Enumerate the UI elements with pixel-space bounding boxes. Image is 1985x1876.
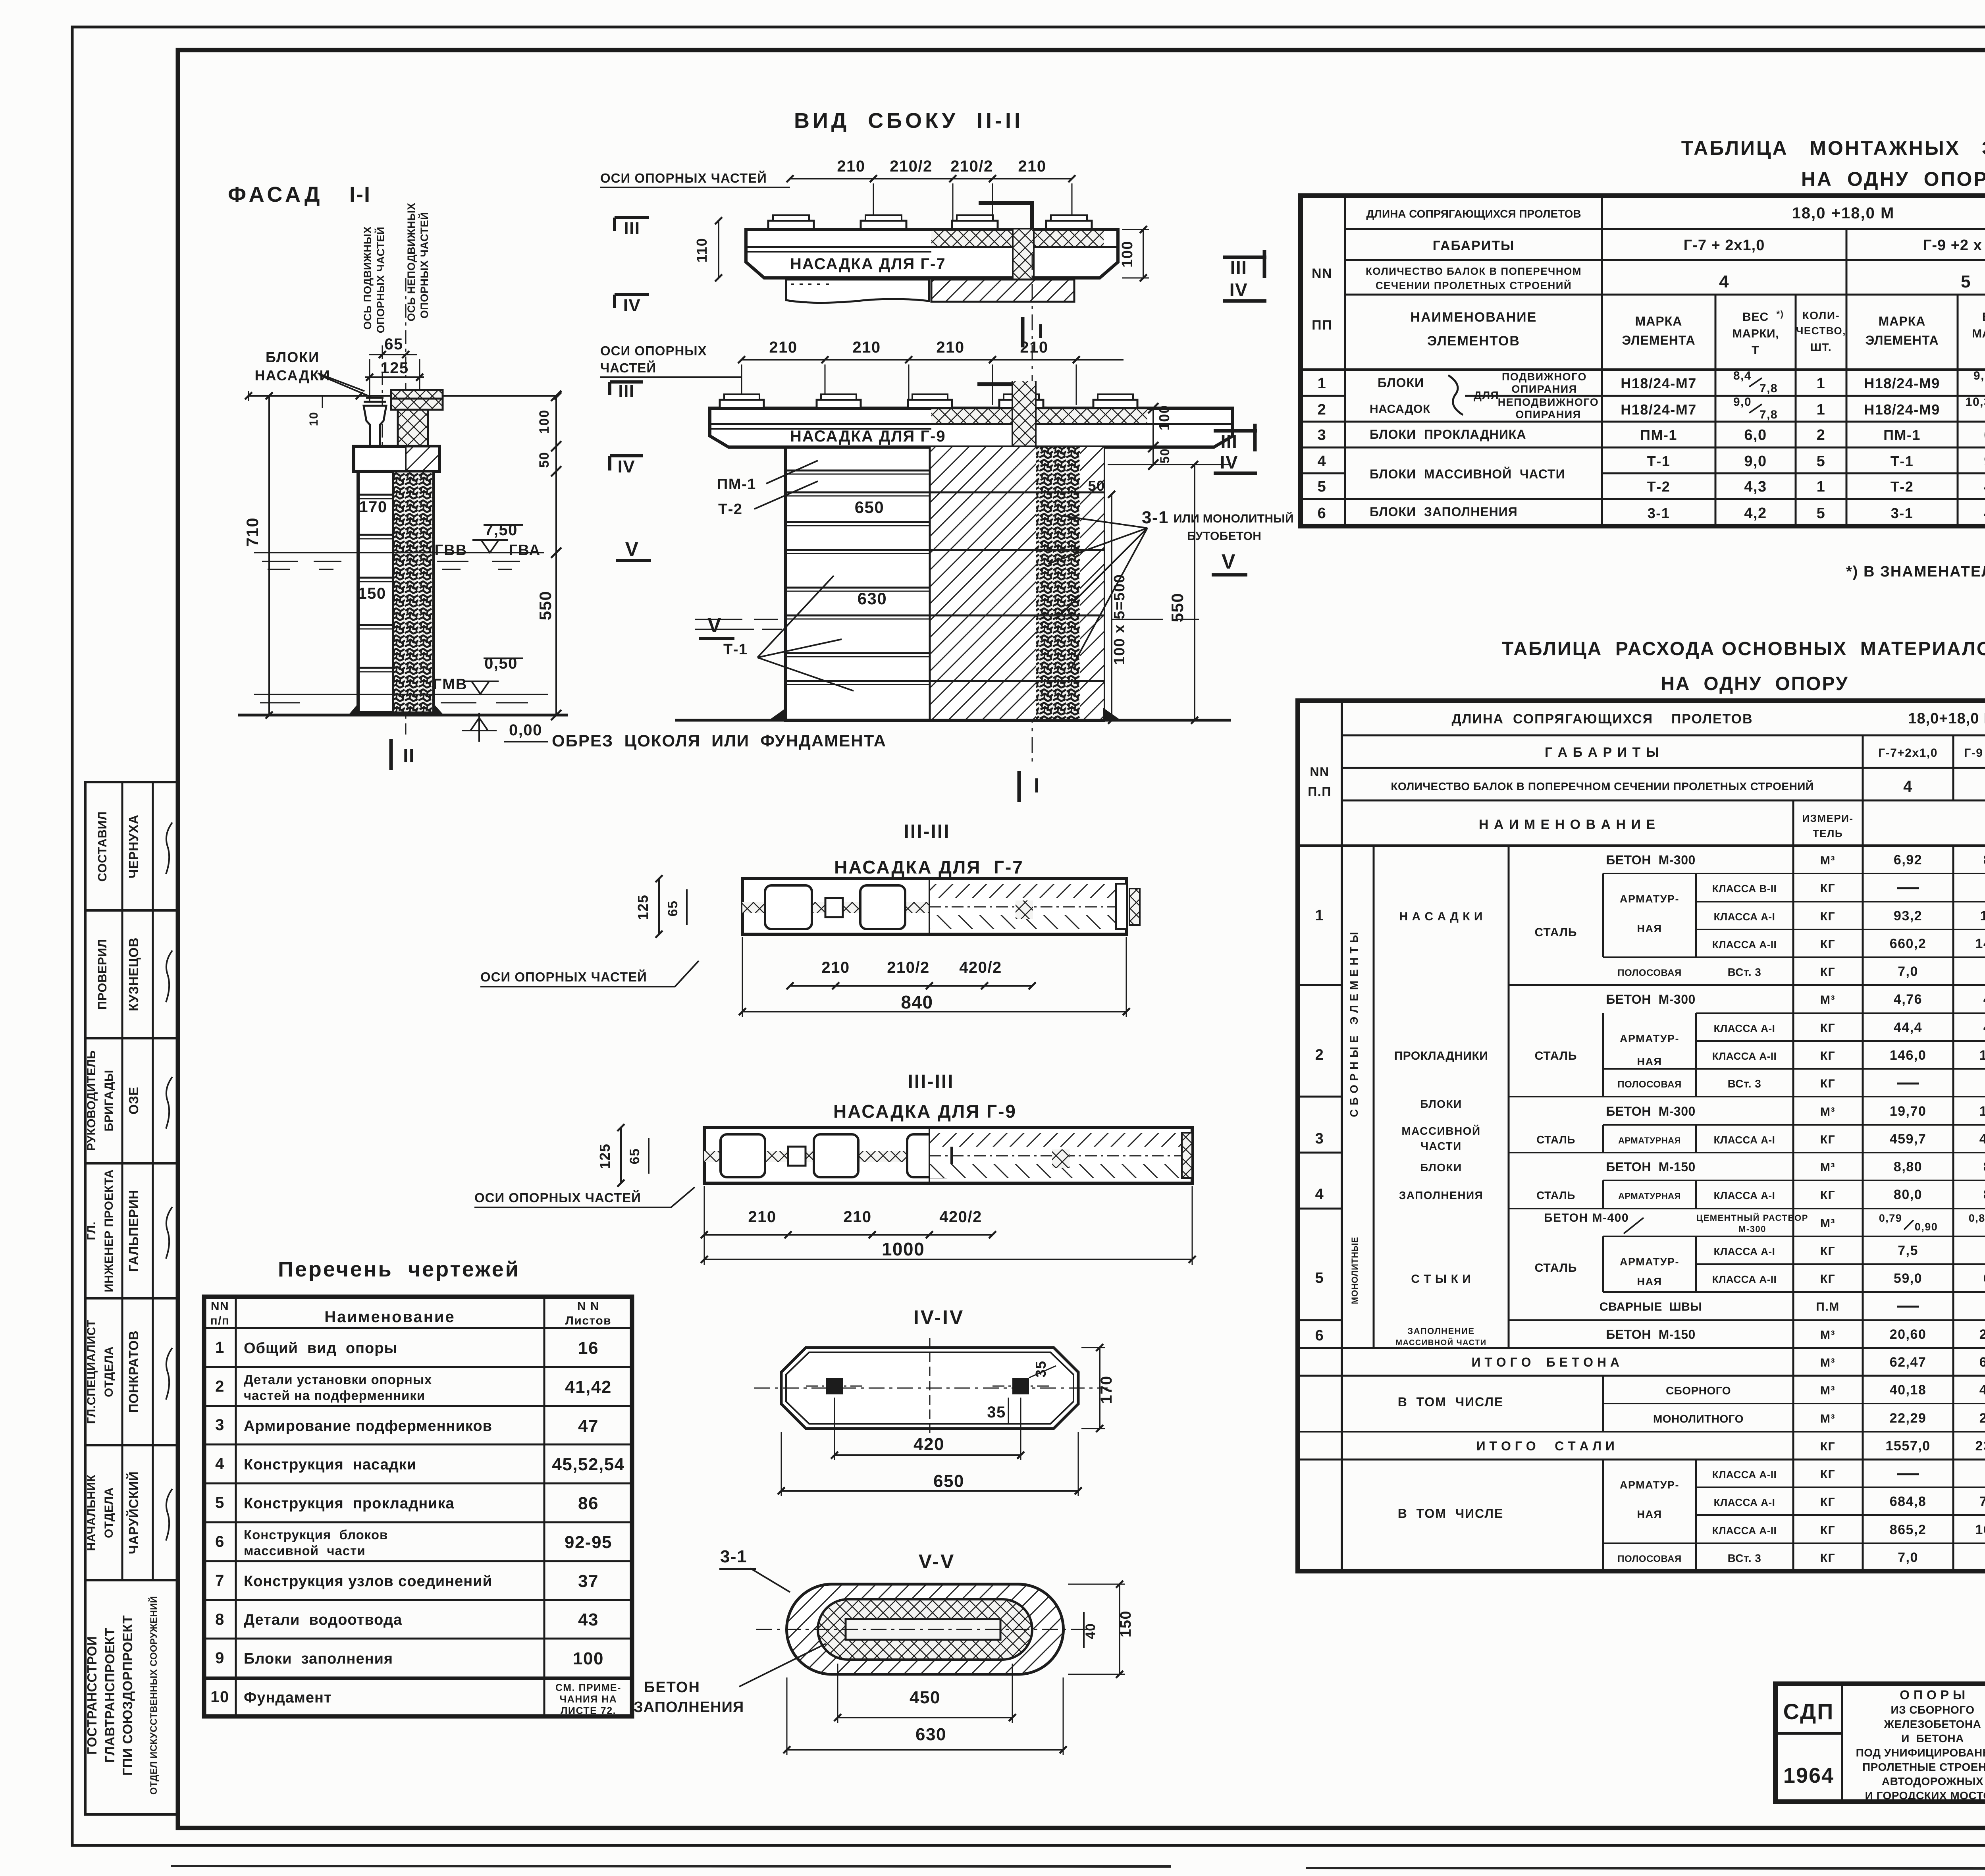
svg-text:АРМАТУР-: АРМАТУР-	[1620, 1479, 1679, 1491]
svg-text:100: 100	[1156, 405, 1172, 431]
facade dim 65	[369, 354, 417, 355]
svg-text:ПМ-1: ПМ-1	[717, 476, 756, 493]
svg-text:ИЗМЕРИ-: ИЗМЕРИ-	[1802, 812, 1853, 824]
svg-text:550: 550	[536, 591, 555, 621]
svg-text:М³: М³	[1820, 1217, 1835, 1230]
svg-text:КЛАССА А-I: КЛАССА А-I	[1714, 1134, 1775, 1146]
svg-text:III: III	[618, 382, 634, 401]
svg-text:459,7: 459,7	[1979, 1132, 1985, 1147]
svg-text:Т-1: Т-1	[1647, 453, 1671, 469]
svg-text:9,5: 9,5	[1973, 369, 1985, 382]
svg-text:18,0+18,0 М: 18,0+18,0 М	[1908, 710, 1985, 727]
svg-text:НАСАДКА ДЛЯ Г-9: НАСАДКА ДЛЯ Г-9	[833, 1101, 1017, 1122]
svg-text:ОБРЕЗ ЦОКОЛЯ ИЛИ ФУНДАМЕНТА: ОБРЕЗ ЦОКОЛЯ ИЛИ ФУНДАМЕНТА	[552, 731, 887, 750]
svg-text:МАССИВНОЙ ЧАСТИ: МАССИВНОЙ ЧАСТИ	[1395, 1338, 1486, 1347]
svg-text:СМ. ПРИМЕ-: СМ. ПРИМЕ-	[555, 1682, 621, 1693]
svg-text:125: 125	[635, 895, 651, 920]
svg-text:7,5: 7,5	[1898, 1243, 1918, 1258]
svg-text:ЦЕМЕНТНЫЙ РАСТВОР: ЦЕМЕНТНЫЙ РАСТВОР	[1696, 1213, 1808, 1223]
III-III G9 right bands	[929, 1133, 1192, 1147]
svg-text:2: 2	[1318, 401, 1327, 418]
svg-text:420/2: 420/2	[939, 1208, 982, 1226]
svg-text:Конструкция блоков: Конструкция блоков	[244, 1527, 388, 1542]
svg-text:660,2: 660,2	[1890, 936, 1927, 951]
svg-text:64,22: 64,22	[1979, 1355, 1985, 1370]
svg-text:NN: NN	[1312, 266, 1332, 281]
svg-text:59,0: 59,0	[1894, 1271, 1922, 1286]
svg-text:Детали водоотвода: Детали водоотвода	[244, 1612, 402, 1628]
svg-text:КЛАССА А-I: КЛАССА А-I	[1714, 1246, 1775, 1257]
svg-text:IV: IV	[1230, 280, 1248, 300]
svg-text:ВЕС: ВЕС	[1742, 310, 1769, 324]
svg-text:М³: М³	[1820, 1384, 1835, 1397]
svg-text:ОСИ ОПОРНЫХ: ОСИ ОПОРНЫХ	[600, 343, 707, 358]
svg-text:684,8: 684,8	[1890, 1494, 1927, 1509]
pier dim 550 right	[1194, 465, 1195, 720]
svg-text:КОЛИЧЕСТВО БАЛОК В ПОПЕРЕЧНОМ: КОЛИЧЕСТВО БАЛОК В ПОПЕРЕЧНОМ СЕЧЕНИИ ПР…	[1391, 780, 1813, 792]
svg-text:10: 10	[210, 1688, 229, 1706]
svg-text:ОПОРНЫХ ЧАСТЕЙ: ОПОРНЫХ ЧАСТЕЙ	[418, 212, 430, 318]
svg-text:10: 10	[307, 412, 320, 426]
svg-text:КГ: КГ	[1820, 1189, 1835, 1202]
svg-text:1689,6: 1689,6	[1975, 1522, 1985, 1537]
svg-text:65: 65	[665, 900, 680, 917]
svg-text:НАЯ: НАЯ	[1637, 1508, 1662, 1520]
svg-text:СТАЛЬ: СТАЛЬ	[1536, 1189, 1575, 1201]
V-V centerline	[756, 1629, 1096, 1630]
svg-text:210: 210	[837, 158, 865, 175]
svg-text:КГ: КГ	[1820, 1049, 1835, 1062]
III-III G9 dim 1000	[704, 1259, 1192, 1260]
svg-text:ОСИ ОПОРНЫХ ЧАСТЕЙ: ОСИ ОПОРНЫХ ЧАСТЕЙ	[480, 969, 647, 984]
svg-text:Н18/24-М7: Н18/24-М7	[1621, 401, 1697, 418]
svg-text:ПРОВЕРИЛ: ПРОВЕРИЛ	[95, 939, 109, 1010]
III-III G9 right end detail	[1052, 1149, 1070, 1168]
signature table strip in left margin	[85, 782, 178, 1814]
svg-text:Г-9 + 2х1,0: Г-9 + 2х1,0	[1964, 746, 1985, 760]
svg-text:М³: М³	[1820, 1328, 1835, 1342]
svg-text:ЛИСТЕ 72.: ЛИСТЕ 72.	[561, 1705, 616, 1716]
facade top dim line	[249, 395, 558, 397]
III-III G9 crosshatch strip	[704, 1151, 929, 1162]
pier left blocks joints	[786, 470, 930, 472]
svg-text:И БЕТОНА: И БЕТОНА	[1901, 1732, 1964, 1745]
svg-text:210: 210	[1020, 339, 1048, 356]
svg-text:65: 65	[627, 1148, 642, 1165]
svg-text:ПМ-1: ПМ-1	[1640, 427, 1677, 443]
svg-text:8,80: 8,80	[1894, 1159, 1922, 1174]
svg-text:0,50: 0,50	[484, 655, 518, 672]
svg-text:630: 630	[915, 1725, 946, 1744]
svg-text:ПП: ПП	[1312, 318, 1332, 333]
svg-text:КЛАССА А-II: КЛАССА А-II	[1712, 1273, 1777, 1285]
svg-text:ВИД СБОКУ II-II: ВИД СБОКУ II-II	[794, 109, 1023, 133]
svg-text:ЭЛЕМЕНТА: ЭЛЕМЕНТА	[1865, 333, 1939, 347]
svg-text:210: 210	[748, 1208, 776, 1226]
svg-text:9: 9	[215, 1649, 225, 1667]
svg-text:КГ: КГ	[1820, 1077, 1835, 1090]
pier dim 50 upper right	[1111, 494, 1112, 528]
svg-text:Наименование: Наименование	[324, 1308, 455, 1326]
facade axis lines	[382, 345, 383, 472]
table 1 vertical lines	[1344, 196, 1346, 526]
svg-text:КГ: КГ	[1820, 938, 1835, 951]
V-V dim 150	[1119, 1584, 1120, 1674]
G7 cap crosshatch band right half	[931, 229, 1104, 247]
svg-text:АРМАТУРНАЯ: АРМАТУРНАЯ	[1618, 1136, 1681, 1145]
svg-text:П.П: П.П	[1308, 785, 1331, 799]
pier right diagonal hatch region	[930, 447, 1104, 720]
svg-text:II: II	[403, 746, 415, 767]
III-III G9 left dims	[620, 1128, 622, 1183]
svg-text:ГВВ: ГВВ	[435, 542, 467, 559]
G7 column stub below cap	[786, 280, 929, 303]
svg-text:КГ: КГ	[1820, 1552, 1835, 1565]
svg-text:125: 125	[380, 359, 409, 377]
svg-text:865,2: 865,2	[1890, 1522, 1927, 1537]
svg-text:ГЛ.СПЕЦИАЛИСТ: ГЛ.СПЕЦИАЛИСТ	[85, 1320, 98, 1424]
svg-text:210: 210	[852, 339, 881, 356]
svg-text:40,18: 40,18	[1890, 1382, 1927, 1398]
facade column rubble core	[393, 472, 432, 711]
svg-text:КГ: КГ	[1820, 910, 1835, 923]
svg-text:ЗАПОЛНЕНИЯ: ЗАПОЛНЕНИЯ	[634, 1699, 744, 1716]
svg-text:КОЛИЧЕСТВО БАЛОК В ПОПЕРЕЧНОМ: КОЛИЧЕСТВО БАЛОК В ПОПЕРЕЧНОМ	[1366, 265, 1582, 277]
svg-text:210/2: 210/2	[887, 959, 930, 976]
svg-text:20,60: 20,60	[1979, 1327, 1985, 1342]
svg-text:М³: М³	[1820, 854, 1835, 867]
svg-text:ПРОЛЕТНЫЕ СТРОЕНИЯ: ПРОЛЕТНЫЕ СТРОЕНИЯ	[1862, 1761, 1985, 1773]
svg-text:170: 170	[359, 498, 387, 516]
svg-text:С Т Ы К И: С Т Ы К И	[1411, 1273, 1471, 1286]
svg-text:п/п: п/п	[210, 1314, 229, 1327]
svg-text:Т-2: Т-2	[718, 501, 743, 518]
scanned page bottom edge artifact	[171, 1866, 1171, 1866]
svg-text:КЛАССА А-II: КЛАССА А-II	[1712, 939, 1777, 951]
svg-text:НЕПОДВИЖНОГО: НЕПОДВИЖНОГО	[1498, 396, 1599, 408]
svg-text:ОСИ ОПОРНЫХ ЧАСТЕЙ: ОСИ ОПОРНЫХ ЧАСТЕЙ	[600, 170, 767, 185]
svg-text:Т-2: Т-2	[1647, 478, 1671, 495]
svg-text:1000: 1000	[882, 1239, 925, 1259]
svg-text:ПОД УНИФИЦИРОВАННЫЕ: ПОД УНИФИЦИРОВАННЫЕ	[1856, 1747, 1985, 1759]
svg-text:МОНОЛИТНЫЕ: МОНОЛИТНЫЕ	[1350, 1237, 1360, 1304]
svg-text:0,90: 0,90	[1915, 1221, 1938, 1233]
svg-text:6: 6	[1315, 1327, 1324, 1344]
svg-text:18,0 +18,0 М: 18,0 +18,0 М	[1792, 204, 1895, 222]
svg-text:Г-7 + 2х1,0: Г-7 + 2х1,0	[1684, 237, 1765, 254]
svg-text:Н А И М Е Н О В А Н И Е: Н А И М Е Н О В А Н И Е	[1479, 817, 1656, 832]
svg-text:1964: 1964	[1783, 1764, 1834, 1787]
svg-text:Т-2: Т-2	[1891, 478, 1914, 495]
svg-text:М-300: М-300	[1738, 1224, 1766, 1234]
svg-text:М³: М³	[1820, 993, 1835, 1006]
svg-text:СЕЧЕНИИ ПРОЛЕТНЫХ СТРОЕНИЙ: СЕЧЕНИИ ПРОЛЕТНЫХ СТРОЕНИЙ	[1376, 280, 1572, 291]
G9 cap crosshatch band	[931, 408, 1147, 424]
facade water line GMV	[254, 694, 548, 695]
facade water line GVV	[254, 552, 544, 553]
svg-text:НАЯ: НАЯ	[1637, 1056, 1662, 1068]
G7 left dim 110	[718, 221, 719, 278]
svg-text:ИНЖЕНЕР ПРОЕКТА: ИНЖЕНЕР ПРОЕКТА	[102, 1169, 116, 1292]
svg-text:СОСТАВИЛ: СОСТАВИЛ	[95, 811, 109, 881]
svg-text:ГПИ СОЮЗДОРПРОЕКТ: ГПИ СОЮЗДОРПРОЕКТ	[120, 1615, 135, 1776]
svg-text:частей на подферменники: частей на подферменники	[244, 1388, 425, 1403]
G9 center web	[1012, 381, 1036, 447]
svg-text:I-I: I-I	[349, 183, 371, 206]
svg-text:БЕТОН М-300: БЕТОН М-300	[1606, 1104, 1696, 1118]
svg-text:Листов: Листов	[565, 1314, 611, 1327]
svg-text:МАРКИ,: МАРКИ,	[1732, 327, 1779, 340]
svg-text:80,0: 80,0	[1983, 1187, 1985, 1202]
svg-text:7,8: 7,8	[1760, 408, 1778, 421]
svg-text:702,9: 702,9	[1979, 1494, 1985, 1509]
pier right big block joints	[930, 492, 1104, 494]
svg-text:ОСИ ОПОРНЫХ ЧАСТЕЙ: ОСИ ОПОРНЫХ ЧАСТЕЙ	[474, 1190, 641, 1205]
IV-IV stadium outline	[781, 1348, 1078, 1429]
svg-text:19,70: 19,70	[1979, 1104, 1985, 1119]
svg-text:50: 50	[537, 452, 552, 468]
facade column shaft	[358, 471, 434, 713]
svg-text:АРМАТУР-: АРМАТУР-	[1620, 893, 1679, 905]
facade ground line	[238, 714, 568, 717]
svg-text:125: 125	[597, 1143, 613, 1169]
pier ground line	[675, 719, 1231, 722]
svg-text:2: 2	[1817, 427, 1826, 443]
svg-text:86: 86	[578, 1494, 599, 1513]
svg-text:1: 1	[1315, 907, 1324, 924]
svg-text:5: 5	[1961, 272, 1971, 291]
svg-text:ПОНКРАТОВ: ПОНКРАТОВ	[126, 1330, 141, 1413]
svg-text:3-1: 3-1	[1891, 505, 1914, 521]
svg-text:МАССИВНОЙ: МАССИВНОЙ	[1401, 1124, 1480, 1137]
svg-text:АРМАТУР-: АРМАТУР-	[1620, 1256, 1679, 1268]
svg-text:ВСт. 3: ВСт. 3	[1728, 1552, 1761, 1564]
svg-text:ГАЛЬПЕРИН: ГАЛЬПЕРИН	[126, 1190, 141, 1272]
svg-text:В ТОМ ЧИСЛЕ: В ТОМ ЧИСЛЕ	[1398, 1506, 1504, 1521]
svg-text:40: 40	[1083, 1623, 1098, 1639]
svg-text:КГ: КГ	[1820, 1496, 1835, 1509]
svg-text:III: III	[1230, 257, 1247, 278]
svg-text:IV: IV	[1220, 452, 1238, 472]
III-III G7 left dims 125 65	[658, 879, 660, 934]
svg-text:NN: NN	[1310, 765, 1329, 779]
svg-text:IV-IV: IV-IV	[913, 1306, 964, 1328]
svg-text:0,00: 0,00	[509, 721, 542, 739]
facade column joints	[358, 494, 393, 496]
svg-text:КГ: КГ	[1820, 1440, 1835, 1453]
svg-text:ОПИРАНИЯ: ОПИРАНИЯ	[1511, 383, 1577, 395]
svg-text:ТАБЛИЦА РАСХОДА ОСНОВНЫХ МАТ: ТАБЛИЦА РАСХОДА ОСНОВНЫХ МАТЕРИАЛОВ	[1502, 638, 1985, 659]
svg-text:КЛАССА А-II: КЛАССА А-II	[1712, 1469, 1777, 1481]
svg-text:3: 3	[1315, 1130, 1324, 1147]
svg-text:450: 450	[910, 1688, 940, 1707]
svg-text:I: I	[1034, 774, 1040, 797]
svg-text:100: 100	[537, 409, 552, 434]
svg-text:БЕТОН М-300: БЕТОН М-300	[1606, 992, 1696, 1006]
svg-text:Перечень чертежей: Перечень чертежей	[278, 1257, 520, 1281]
svg-text:4: 4	[215, 1455, 225, 1473]
svg-text:8,50: 8,50	[1983, 852, 1985, 868]
svg-text:4,76: 4,76	[1894, 992, 1922, 1007]
svg-text:СТАЛЬ: СТАЛЬ	[1536, 1134, 1575, 1146]
svg-text:М³: М³	[1820, 1356, 1835, 1369]
G7 cap bearing pads	[768, 221, 814, 229]
svg-text:ЧАРУЙСКИЙ: ЧАРУЙСКИЙ	[126, 1471, 141, 1554]
svg-text:146,0: 146,0	[1890, 1048, 1927, 1063]
svg-text:НА ОДНУ ОПОРУ: НА ОДНУ ОПОРУ	[1801, 168, 1985, 190]
svg-text:СБОРНОГО: СБОРНОГО	[1666, 1384, 1731, 1397]
svg-text:37: 37	[578, 1571, 599, 1591]
svg-text:210: 210	[843, 1208, 871, 1226]
svg-text:6,92: 6,92	[1894, 852, 1922, 868]
svg-text:АРМАТУРНАЯ: АРМАТУРНАЯ	[1618, 1191, 1681, 1201]
G7 cap center web hatched	[1013, 229, 1034, 302]
svg-text:КГ: КГ	[1820, 1133, 1835, 1146]
svg-text:4,3: 4,3	[1744, 478, 1767, 495]
pier dim 100x5=500	[1111, 528, 1112, 720]
svg-text:1: 1	[1817, 478, 1826, 495]
section marks II IV right of G7	[1223, 256, 1266, 259]
svg-text:Конструкция насадки: Конструкция насадки	[244, 1456, 416, 1473]
svg-text:4: 4	[1315, 1186, 1324, 1203]
svg-text:МАРКА: МАРКА	[1635, 314, 1682, 328]
svg-text:ПМ-1: ПМ-1	[1883, 427, 1921, 443]
V-V inner rect void	[846, 1619, 1000, 1640]
section mark I bottom	[1018, 771, 1021, 802]
svg-text:5: 5	[1817, 505, 1826, 522]
svg-text:КЛАССА А-II: КЛАССА А-II	[1712, 1525, 1777, 1537]
svg-text:III-III: III-III	[904, 821, 950, 842]
svg-text:9,0: 9,0	[1744, 453, 1767, 470]
svg-text:19,70: 19,70	[1890, 1104, 1927, 1119]
pier rubble core	[1036, 447, 1080, 720]
svg-text:ОТДЕЛ ИСКУССТВЕННЫХ СООРУЖЕНИЙ: ОТДЕЛ ИСКУССТВЕННЫХ СООРУЖЕНИЙ	[148, 1596, 159, 1795]
svg-text:ЭЛЕМЕНТА: ЭЛЕМЕНТА	[1622, 333, 1695, 347]
svg-text:650: 650	[933, 1471, 964, 1491]
G9 cap body	[710, 408, 1233, 447]
svg-text:БЛОКИ: БЛОКИ	[266, 349, 320, 365]
svg-text:ФАСАД: ФАСАД	[228, 183, 323, 206]
svg-text:5: 5	[215, 1494, 225, 1512]
svg-text:4,2: 4,2	[1744, 505, 1767, 522]
svg-text:4: 4	[1719, 272, 1729, 291]
svg-text:100 х 5=500: 100 х 5=500	[1111, 574, 1128, 665]
III-III G7 right end detail	[1016, 900, 1033, 919]
svg-text:7,8: 7,8	[1760, 382, 1778, 395]
svg-text:ИЛИ МОНОЛИТНЫЙ: ИЛИ МОНОЛИТНЫЙ	[1174, 512, 1294, 525]
svg-text:Н18/24-М9: Н18/24-М9	[1864, 401, 1940, 418]
svg-text:0,85: 0,85	[1969, 1212, 1985, 1224]
svg-text:НАСАДКА ДЛЯ Г-7: НАСАДКА ДЛЯ Г-7	[790, 255, 946, 273]
svg-text:N N: N N	[577, 1300, 599, 1313]
svg-text:550: 550	[1168, 593, 1187, 623]
G7 cap top dimension line	[790, 178, 1072, 179]
svg-text:210/2: 210/2	[890, 158, 933, 175]
svg-text:НАЧАЛЬНИК: НАЧАЛЬНИК	[85, 1474, 98, 1551]
svg-text:93,2: 93,2	[1894, 908, 1922, 924]
svg-text:ПОЛОСОВАЯ: ПОЛОСОВАЯ	[1617, 968, 1681, 978]
svg-text:КЛАССА А-II: КЛАССА А-II	[1712, 1050, 1777, 1062]
svg-text:V: V	[707, 614, 722, 637]
G7 section marks III IV left	[615, 216, 649, 219]
svg-text:КЛАССА В-II: КЛАССА В-II	[1712, 883, 1777, 895]
G7 cap extension lines	[873, 183, 874, 226]
svg-text:НАСАДКИ: НАСАДКИ	[254, 367, 330, 384]
svg-text:ЧЕСТВО,: ЧЕСТВО,	[1796, 325, 1846, 337]
svg-text:КГ: КГ	[1820, 1524, 1835, 1537]
pier massive part outline	[786, 447, 1104, 720]
svg-text:22,46: 22,46	[1979, 1411, 1985, 1426]
svg-text:100: 100	[1119, 241, 1136, 268]
svg-text:2399,5: 2399,5	[1975, 1438, 1985, 1454]
svg-text:1: 1	[215, 1339, 225, 1356]
svg-text:150: 150	[1118, 1610, 1134, 1637]
svg-text:65: 65	[384, 335, 403, 353]
facade cap	[354, 446, 439, 471]
svg-text:Армирование подферменников: Армирование подферменников	[244, 1418, 492, 1434]
svg-text:6: 6	[1318, 505, 1327, 522]
facade left dim 710	[268, 396, 270, 715]
svg-text:3-1: 3-1	[720, 1547, 747, 1566]
V-V dim 630	[787, 1749, 1063, 1751]
svg-text:ГЛ.: ГЛ.	[85, 1221, 98, 1240]
facade right bearing block hatched	[391, 390, 443, 410]
svg-text:92-95: 92-95	[565, 1533, 612, 1552]
svg-text:СВАРНЫЕ ШВЫ: СВАРНЫЕ ШВЫ	[1600, 1300, 1702, 1313]
svg-text:КГ: КГ	[1820, 1468, 1835, 1481]
svg-text:Т-1: Т-1	[723, 641, 748, 658]
svg-text:III: III	[1221, 431, 1238, 452]
svg-text:БЛОКИ: БЛОКИ	[1420, 1098, 1462, 1110]
svg-text:БРИГАДЫ: БРИГАДЫ	[102, 1070, 116, 1131]
svg-text:М³: М³	[1820, 1105, 1835, 1118]
svg-text:8,4: 8,4	[1733, 369, 1752, 382]
svg-text:БЕТОН: БЕТОН	[644, 1679, 700, 1696]
svg-text:НАСАДОК: НАСАДОК	[1370, 403, 1430, 416]
svg-text:0,79: 0,79	[1879, 1212, 1902, 1224]
svg-text:НАЯ: НАЯ	[1637, 923, 1662, 935]
svg-text:ДЛЯ: ДЛЯ	[1474, 389, 1499, 401]
svg-text:АВТОДОРОЖНЫХ: АВТОДОРОЖНЫХ	[1882, 1775, 1983, 1787]
svg-text:РУКОВОДИТЕЛЬ: РУКОВОДИТЕЛЬ	[85, 1050, 98, 1151]
svg-text:41,42: 41,42	[565, 1377, 612, 1397]
svg-text:С Б О Р Н Ы Е Э Л Е М Е Н Т: С Б О Р Н Ы Е Э Л Е М Е Н Т Ы	[1348, 931, 1360, 1117]
svg-text:И Т О Г О С Т А Л И: И Т О Г О С Т А Л И	[1476, 1439, 1615, 1453]
svg-text:6: 6	[215, 1533, 225, 1550]
svg-text:КГ: КГ	[1820, 1273, 1835, 1286]
G7 right dim 100	[1143, 229, 1144, 278]
table 2 data content	[1373, 846, 1375, 1348]
svg-text:V: V	[1222, 550, 1236, 573]
svg-text:ДЛИНА СОПРЯГАЮЩИХСЯ ПРОЛЕТ: ДЛИНА СОПРЯГАЮЩИХСЯ ПРОЛЕТОВ	[1451, 711, 1753, 727]
svg-text:ОТДЕЛА: ОТДЕЛА	[102, 1346, 116, 1397]
svg-text:СТАЛЬ: СТАЛЬ	[1535, 1261, 1577, 1274]
III-III G9 bar	[704, 1128, 1192, 1183]
svg-text:210: 210	[1018, 158, 1046, 175]
svg-text:50: 50	[1158, 448, 1172, 464]
svg-text:ЧАСТИ: ЧАСТИ	[1420, 1140, 1461, 1152]
svg-text:В ТОМ ЧИСЛЕ: В ТОМ ЧИСЛЕ	[1398, 1395, 1504, 1409]
III-III G7 crosshatch strip	[742, 902, 929, 913]
svg-text:7,0: 7,0	[1898, 1550, 1918, 1565]
svg-text:Н18/24-М9: Н18/24-М9	[1864, 375, 1940, 391]
svg-text:ВЕС: ВЕС	[1982, 310, 1985, 324]
svg-text:О П О Р Ы: О П О Р Ы	[1900, 1688, 1966, 1702]
svg-text:КЛАССА А-I: КЛАССА А-I	[1714, 1190, 1775, 1201]
svg-text:62,47: 62,47	[1890, 1355, 1927, 1370]
svg-text:ОТДЕЛА: ОТДЕЛА	[102, 1487, 116, 1538]
svg-text:III-III: III-III	[908, 1071, 954, 1092]
